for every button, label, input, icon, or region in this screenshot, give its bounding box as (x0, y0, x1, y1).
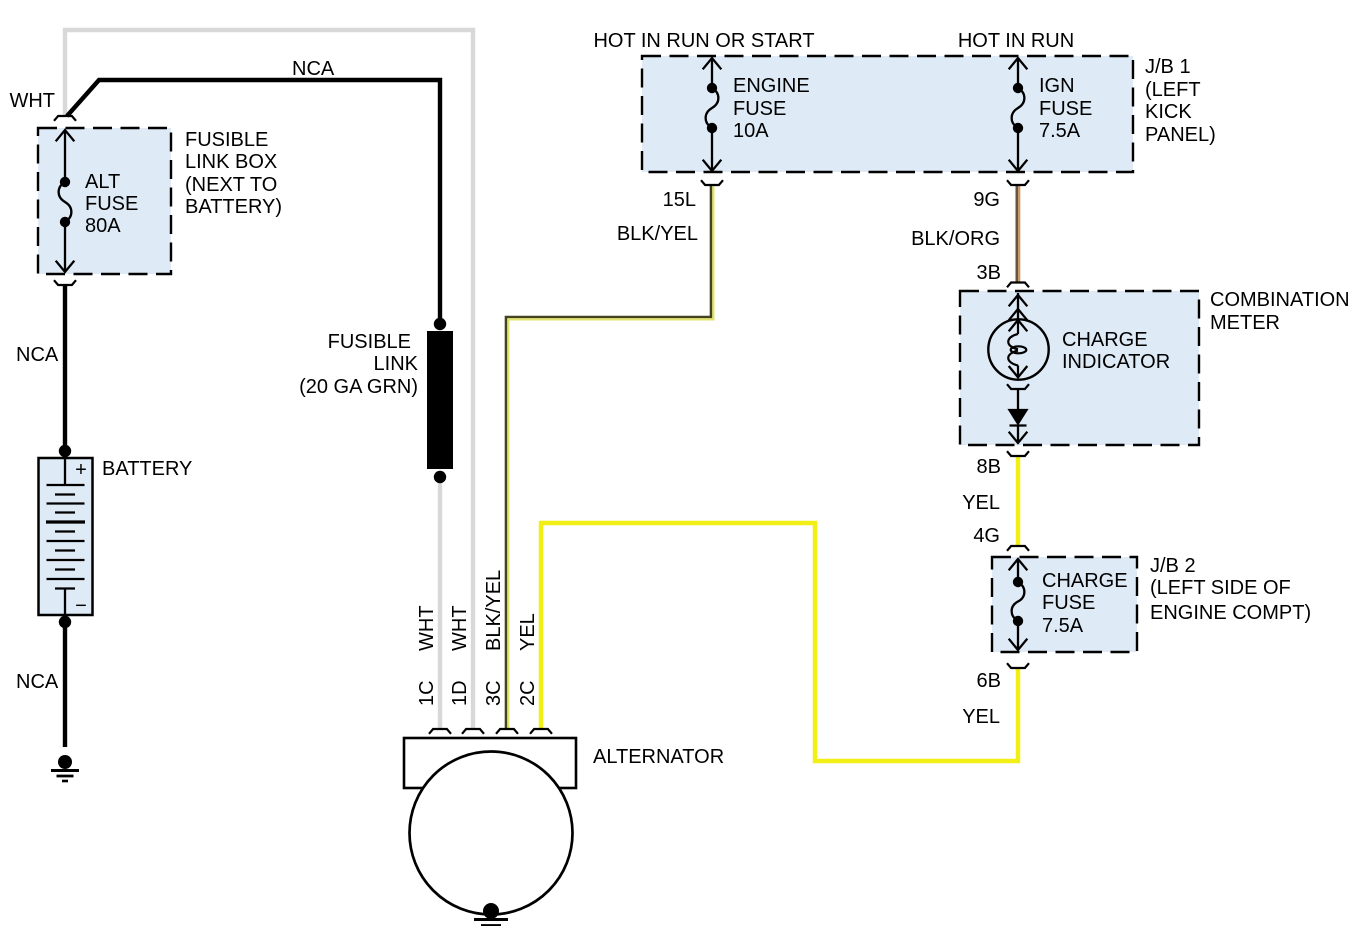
connector 9G (female) below J/B 1 (1007, 180, 1029, 185)
combination meter box (dashed border) (960, 291, 1199, 445)
svg-text:KICK: KICK (1145, 101, 1192, 123)
svg-text:FUSIBLE: FUSIBLE (328, 331, 411, 353)
svg-text:HOT IN RUN OR START: HOT IN RUN OR START (593, 30, 814, 52)
alternator connector 3C (male) (496, 729, 518, 734)
svg-text:J/B 1: J/B 1 (1145, 56, 1191, 78)
svg-text:FUSIBLE: FUSIBLE (185, 129, 268, 151)
svg-text:BATTERY): BATTERY) (185, 196, 282, 218)
svg-text:WHT: WHT (416, 605, 438, 651)
svg-text:ALTERNATOR: ALTERNATOR (593, 746, 724, 768)
svg-text:FUSE: FUSE (85, 193, 138, 215)
wire BLK/YEL dark stroke from 15L down, left, down to alternator 3C (506, 185, 711, 728)
svg-text:8B: 8B (977, 456, 1001, 478)
svg-text:80A: 80A (85, 215, 121, 237)
fuse CHARGE FUSE 7.5A (1012, 559, 1025, 650)
svg-text:FUSE: FUSE (1039, 98, 1092, 120)
svg-text:2C: 2C (517, 680, 539, 706)
svg-text:FUSE: FUSE (1042, 592, 1095, 614)
svg-text:BATTERY: BATTERY (102, 458, 192, 480)
ground (alternator) (474, 903, 508, 926)
junction dot battery bottom (59, 616, 71, 628)
junction dot battery top (59, 445, 71, 457)
charge indicator lamp assembly (1017, 293, 1019, 321)
svg-text:3C: 3C (483, 680, 505, 706)
svg-text:HOT IN RUN: HOT IN RUN (958, 30, 1074, 52)
svg-text:NCA: NCA (292, 58, 335, 80)
lamp circle (988, 319, 1048, 379)
connector (female) below lamp (1007, 384, 1029, 389)
junction dot below fusible link (434, 471, 446, 483)
connector 6B (female) below J/B 2 (1007, 663, 1029, 668)
alternator terminal box (404, 738, 576, 788)
svg-text:BLK/YEL: BLK/YEL (617, 223, 698, 245)
fusible link box (dashed border) (38, 128, 171, 274)
battery (39, 458, 93, 615)
alternator connector 1C (male) (429, 729, 451, 734)
alternator body circle (410, 752, 573, 915)
wire BLK/ORG orange stripe (1018, 185, 1020, 282)
wire YEL from 8B to 4G (1016, 456, 1021, 546)
svg-text:YEL: YEL (517, 613, 539, 651)
svg-text:J/B 2: J/B 2 (1150, 555, 1196, 577)
svg-text:3B: 3B (977, 262, 1001, 284)
ground (battery) (51, 755, 79, 781)
connector 3B (male) above combination meter (1007, 283, 1029, 288)
svg-text:ALT: ALT (85, 171, 120, 193)
svg-text:NCA: NCA (16, 671, 59, 693)
diode symbol in combination meter (1010, 389, 1027, 443)
svg-text:−: − (75, 595, 87, 617)
connector 4G (male) above J/B 2 (1007, 546, 1029, 551)
fusible link (20 GA GRN) body (427, 331, 453, 469)
wire YEL from 6B down, left, up to alternator 2C (541, 523, 1018, 761)
svg-text:YEL: YEL (962, 706, 1000, 728)
J/B 1 box fill (642, 56, 1133, 172)
svg-text:10A: 10A (733, 120, 769, 142)
svg-text:COMBINATION: COMBINATION (1210, 289, 1350, 311)
svg-text:+: + (75, 459, 87, 481)
svg-text:PANEL): PANEL) (1145, 124, 1216, 146)
svg-text:1C: 1C (416, 680, 438, 706)
J/B 2 box (dashed border) (992, 557, 1137, 652)
svg-text:LINK: LINK (374, 353, 419, 375)
svg-text:(LEFT SIDE OF: (LEFT SIDE OF (1150, 577, 1291, 599)
svg-text:METER: METER (1210, 312, 1280, 334)
wire NCA battery feed (black) from fusible link box to battery (63, 285, 67, 458)
svg-text:IGN: IGN (1039, 75, 1075, 97)
svg-text:YEL: YEL (962, 492, 1000, 514)
svg-text:WHT: WHT (449, 605, 471, 651)
fusible link box (J/B) fill (38, 128, 171, 274)
svg-text:CHARGE: CHARGE (1062, 329, 1148, 351)
svg-text:6B: 6B (977, 670, 1001, 692)
svg-text:(LEFT: (LEFT (1145, 79, 1201, 101)
svg-text:7.5A: 7.5A (1039, 120, 1081, 142)
svg-text:INDICATOR: INDICATOR (1062, 351, 1170, 373)
connector (female) below fusible link box (54, 280, 76, 285)
svg-text:(20 GA GRN): (20 GA GRN) (299, 376, 418, 398)
fuse IGN FUSE 7.5A (1012, 58, 1025, 171)
svg-text:NCA: NCA (16, 344, 59, 366)
wire BLK/ORG dark stroke from 9G down to 3B (1015, 185, 1018, 282)
svg-text:ENGINE COMPT): ENGINE COMPT) (1150, 602, 1311, 624)
wire NCA battery to ground (63, 614, 67, 747)
svg-text:4G: 4G (973, 525, 1000, 547)
svg-text:BLK/ORG: BLK/ORG (911, 228, 1000, 250)
connector 8B (female) below combination meter (1007, 451, 1029, 456)
svg-text:(NEXT TO: (NEXT TO (185, 174, 277, 196)
svg-text:9G: 9G (973, 189, 1000, 211)
wire WHT (gray) from fusible link box top, up and right then down to alternator 1D (65, 30, 473, 728)
alternator connector 1D (male) (462, 729, 484, 734)
wire BLK/YEL yellow stripe (508, 185, 713, 728)
fuse ALT FUSE 80A (59, 130, 72, 272)
combination meter box fill (960, 291, 1199, 445)
svg-text:15L: 15L (663, 189, 696, 211)
alternator connector 2C (male) (530, 729, 552, 734)
svg-text:7.5A: 7.5A (1042, 615, 1084, 637)
svg-text:ENGINE: ENGINE (733, 75, 810, 97)
fuse ENGINE FUSE 10A (706, 58, 719, 171)
connector 15L (female) below J/B 1 (701, 180, 723, 185)
svg-text:1D: 1D (449, 680, 471, 706)
J/B 1 box (dashed border) (642, 56, 1133, 172)
svg-text:CHARGE: CHARGE (1042, 570, 1128, 592)
wire WHT (gray) from fusible link bottom down to alternator 1C (438, 477, 442, 728)
J/B 2 box fill (992, 557, 1137, 652)
svg-text:BLK/YEL: BLK/YEL (483, 570, 505, 651)
wire NCA (black) diagonal from WHT connector, right along top, down to fusible link (67, 80, 440, 326)
svg-text:FUSE: FUSE (733, 98, 786, 120)
svg-text:LINK BOX: LINK BOX (185, 151, 277, 173)
svg-text:WHT: WHT (9, 90, 55, 112)
junction dot above fusible link (434, 318, 446, 330)
connector (male) at top of fusible link box (54, 116, 76, 121)
